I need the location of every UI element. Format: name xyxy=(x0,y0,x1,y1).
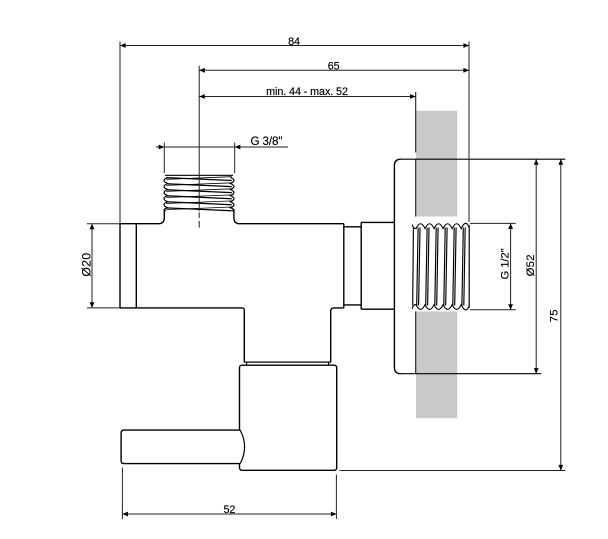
svg-text:52: 52 xyxy=(223,504,235,516)
svg-text:min. 44 - max. 52: min. 44 - max. 52 xyxy=(266,86,348,98)
svg-text:Ø52: Ø52 xyxy=(525,254,537,276)
svg-text:G 3/8": G 3/8" xyxy=(251,135,283,148)
svg-text:75: 75 xyxy=(549,309,561,322)
svg-text:G 1/2": G 1/2" xyxy=(500,248,512,279)
svg-text:65: 65 xyxy=(328,60,340,72)
svg-text:Ø20: Ø20 xyxy=(80,252,94,276)
svg-text:84: 84 xyxy=(288,36,300,48)
